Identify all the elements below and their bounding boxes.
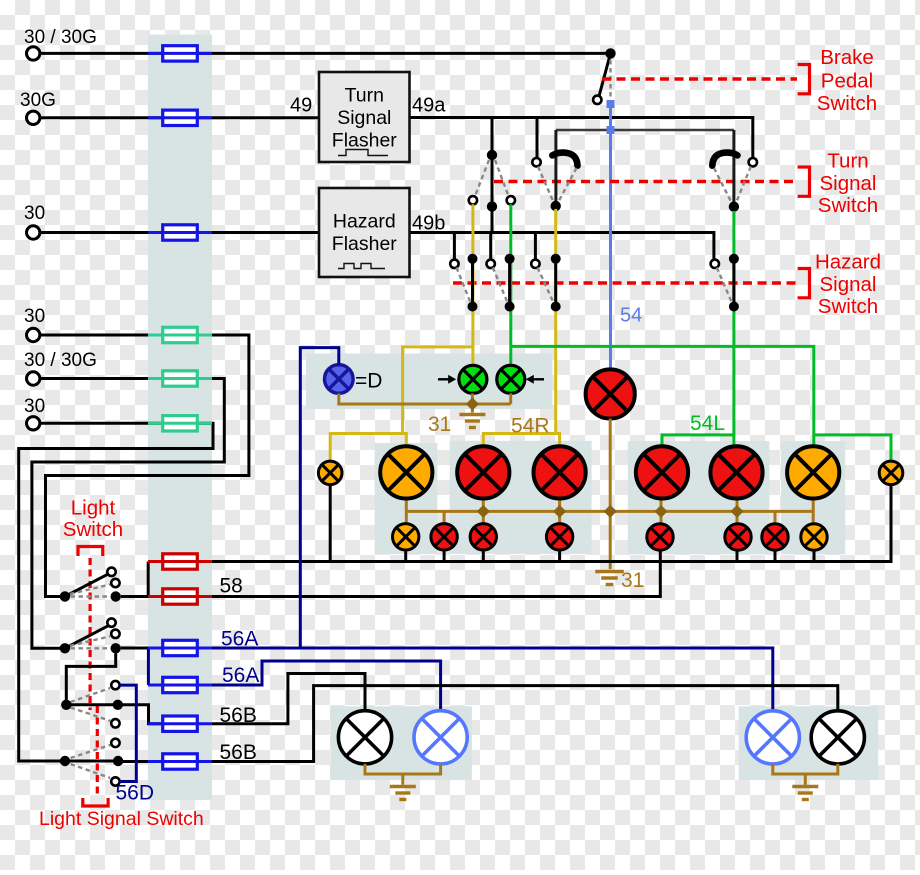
wire 56B low beam right bbox=[212, 686, 838, 762]
wire 56B low beam left bbox=[212, 674, 365, 724]
light signal switch bracket bottom bbox=[83, 798, 108, 806]
svg-text:Pedal: Pedal bbox=[821, 70, 873, 93]
light switch pole 2 dashes bbox=[70, 636, 110, 646]
riser 58 fuse upper bbox=[147, 562, 150, 597]
left low beam headlamp bbox=[338, 711, 391, 764]
turn switch linkage dashes left arc bbox=[538, 167, 553, 202]
indicator ground bus bbox=[339, 394, 511, 405]
tail lamp R1 bbox=[647, 524, 673, 550]
hazard switch supply stub 2 bbox=[489, 233, 492, 260]
terminal 30 (light switch) bbox=[27, 328, 40, 341]
fuse F8 red 58 bbox=[148, 589, 212, 604]
dimmer pole 4 nodes bbox=[60, 756, 70, 766]
svg-text:Flasher: Flasher bbox=[332, 130, 398, 152]
hazard switch jumper 3 bbox=[554, 259, 557, 307]
wire 30 to hazard flasher bbox=[40, 231, 319, 234]
wire 54 vertical bbox=[609, 104, 612, 370]
svg-text:56A: 56A bbox=[222, 664, 259, 687]
hazard switch contact 3 bbox=[531, 260, 539, 268]
right headlight cluster background bbox=[739, 706, 879, 780]
wire 30 feed to light switch pole 1 bbox=[40, 335, 249, 597]
front left indicator lamp (small orange) bbox=[318, 461, 342, 485]
brake pedal switch linkage bbox=[609, 60, 611, 99]
fuse F1 blue 30/30G bbox=[148, 46, 212, 61]
front right turn lamp (orange) bbox=[787, 446, 839, 498]
rear right turn lamp (red) bbox=[710, 446, 762, 498]
light switch pole 1 nodes bbox=[60, 591, 70, 601]
brake pedal switch callout dashes bbox=[602, 77, 797, 80]
hazard signal switch bracket bbox=[798, 269, 810, 298]
rear right brake lamp (red) bbox=[636, 446, 688, 498]
svg-text:Switch: Switch bbox=[818, 295, 878, 318]
hazard flasher box U2 bbox=[319, 188, 410, 277]
light switch pole 1 lever bbox=[65, 572, 112, 596]
turn switch common rail (54 feed) bbox=[556, 129, 734, 132]
turn switch yellow contact left bbox=[469, 196, 477, 204]
svg-text:Brake: Brake bbox=[820, 46, 874, 69]
wire pole2 to 56A fuses bbox=[121, 647, 163, 650]
hazard switch supply stub 3 bbox=[534, 233, 537, 260]
ground trunk center bbox=[609, 419, 612, 569]
svg-text:Signal: Signal bbox=[337, 107, 391, 129]
dimmer open contacts bbox=[111, 719, 119, 727]
turn switch left pivot node bbox=[487, 150, 497, 160]
hazard switch contact 1 bbox=[450, 260, 458, 268]
front right side marker bbox=[801, 524, 827, 550]
right turn indicator lamp bbox=[497, 365, 525, 393]
arrow right glyph bbox=[438, 375, 456, 384]
riser 56A fuses bbox=[147, 648, 150, 685]
turn switch right arc contact bbox=[712, 153, 737, 166]
light switch pole 1 dashes bbox=[70, 585, 110, 595]
hazard switch supply stub 1 bbox=[453, 233, 456, 260]
hazard switch jumper 1 bbox=[471, 259, 474, 307]
tail lamp common gold bus bbox=[406, 510, 813, 513]
gold bus junction nodes bbox=[477, 505, 490, 518]
turn switch green node right bbox=[729, 202, 739, 212]
ground 31 right headlamps bbox=[792, 787, 818, 800]
light switch pole 2 nodes bbox=[60, 643, 70, 653]
svg-text:Hazard: Hazard bbox=[333, 211, 396, 233]
hazard switch linkage dashes bbox=[457, 268, 471, 303]
turn switch linkage dashes right arc bbox=[737, 167, 751, 202]
light switch callout bracket top bbox=[78, 547, 103, 557]
fuse F2 blue 30G bbox=[148, 110, 212, 125]
turn signal flasher box U1 bbox=[319, 72, 410, 162]
svg-text:Switch: Switch bbox=[818, 194, 878, 217]
wire 54 node square lower bbox=[607, 126, 615, 134]
dimmer pole 3 nodes bbox=[61, 700, 71, 710]
turn switch linkage dashes left pair bbox=[475, 160, 489, 196]
indicator bus node bbox=[466, 397, 479, 410]
svg-text:=D: =D bbox=[355, 370, 382, 393]
fuse F10 blue 56A bbox=[148, 677, 212, 692]
front right indicator lamp (small orange) bbox=[879, 461, 903, 485]
svg-text:Signal: Signal bbox=[820, 273, 877, 296]
hazard switch jumper 4 bbox=[732, 259, 735, 307]
terminal 30/30G (light switch) bbox=[27, 372, 40, 385]
terminal 30 (hazard) bbox=[27, 226, 40, 239]
gold bus risers bbox=[405, 499, 408, 524]
svg-text:58: 58 bbox=[220, 575, 243, 598]
svg-text:54: 54 bbox=[620, 305, 642, 327]
wire 56D loop bbox=[120, 685, 137, 781]
svg-text:30G: 30G bbox=[20, 90, 56, 111]
turn switch left arc contact bbox=[552, 153, 577, 166]
wire 58 lower branch bbox=[197, 550, 660, 596]
tail lamp L2 bbox=[470, 524, 496, 550]
fuse F12 blue 56B bbox=[148, 754, 212, 769]
svg-text:Signal: Signal bbox=[820, 172, 877, 195]
fuse F9 blue 56A bbox=[148, 640, 212, 655]
left headlamp ground wires bbox=[365, 764, 441, 774]
wire 30/30G top bus bbox=[40, 52, 608, 55]
ground 31 left headlamps bbox=[390, 787, 416, 800]
yellow wire A branch bbox=[403, 347, 473, 434]
wire pole2 to dimmer bbox=[66, 653, 115, 700]
light signal switch linkage dashed vertical bbox=[96, 706, 99, 797]
turn switch drop from 49a left bbox=[491, 118, 494, 233]
hazard switch contact 4 bbox=[711, 260, 719, 268]
svg-text:56A: 56A bbox=[221, 628, 258, 651]
wire pole4 to 56B fuse 2 bbox=[120, 760, 163, 763]
green branch to right front bbox=[510, 346, 814, 435]
indicator lamp drops bbox=[471, 393, 474, 412]
ground 31 center bbox=[595, 572, 624, 585]
svg-text:Switch: Switch bbox=[817, 92, 877, 115]
svg-text:Switch: Switch bbox=[63, 518, 123, 541]
left rear cluster background bbox=[450, 441, 592, 554]
svg-text:Flasher: Flasher bbox=[332, 233, 398, 255]
dimmer pole 3 bar bbox=[65, 703, 120, 706]
hazard switch contact 2 bbox=[487, 260, 495, 268]
wire 58 upper tail bus bbox=[197, 485, 891, 562]
svg-text:49: 49 bbox=[290, 95, 312, 117]
green wire right turn bbox=[732, 211, 735, 435]
tail bus stubs bbox=[329, 486, 332, 562]
yellow rail rear left bbox=[483, 434, 559, 447]
fuse F11 blue 56B bbox=[148, 716, 212, 731]
turn signal switch callout dashes bbox=[494, 180, 797, 183]
wire 30G to turn signal flasher bbox=[40, 116, 319, 119]
svg-text:Hazard: Hazard bbox=[815, 251, 881, 274]
brake pedal switch bracket bbox=[798, 65, 810, 94]
tail lamp L1 bbox=[431, 524, 457, 550]
brake pedal switch contact bbox=[593, 96, 601, 104]
svg-text:31: 31 bbox=[428, 413, 451, 436]
svg-text:56B: 56B bbox=[220, 704, 257, 727]
wire 30 feed to light signal switch bbox=[19, 423, 213, 761]
turn switch right contact bbox=[749, 158, 757, 166]
yellow rail front left bbox=[330, 434, 406, 460]
wire 49b from hazard flasher bbox=[410, 233, 714, 260]
svg-text:49b: 49b bbox=[412, 213, 445, 235]
dimmer contact 56D lower bbox=[111, 777, 119, 785]
svg-text:Turn: Turn bbox=[345, 85, 384, 107]
high beam indicator lamp bbox=[325, 365, 354, 394]
green rail front right bbox=[814, 435, 891, 461]
turn switch drop to left contact bbox=[536, 118, 539, 159]
yellow wire A turn contact to left indicator bbox=[471, 204, 474, 365]
tail lamp R3 bbox=[762, 524, 788, 550]
svg-text:49a: 49a bbox=[412, 95, 446, 117]
turn switch green contact left bbox=[507, 196, 515, 204]
wire pole3 to 56B fuse 1 bbox=[120, 705, 163, 724]
dimmer pole 4 bar bbox=[65, 760, 120, 763]
hazard signal switch callout dashes bbox=[453, 281, 797, 284]
svg-text:54L: 54L bbox=[690, 412, 725, 435]
wire pole1 to 58 fuses bbox=[121, 595, 163, 598]
svg-text:Light: Light bbox=[71, 497, 116, 520]
high beam indicator feed bbox=[300, 348, 339, 648]
brake pedal switch node bbox=[605, 48, 615, 58]
fuse F6 green 30 bbox=[148, 416, 212, 431]
svg-text:30 / 30G: 30 / 30G bbox=[24, 350, 97, 371]
right low beam headlamp bbox=[811, 711, 864, 764]
green drop front right big bbox=[812, 435, 815, 446]
front left turn lamp (orange) bbox=[380, 446, 432, 498]
svg-text:30: 30 bbox=[24, 396, 45, 417]
wire 56A high beam left bbox=[212, 661, 441, 711]
dimmer contact 56D upper bbox=[111, 681, 119, 689]
left front corner cluster background bbox=[375, 443, 438, 554]
svg-text:56D: 56D bbox=[116, 782, 155, 805]
terminal 30 (light signal switch) bbox=[27, 417, 40, 430]
svg-text:Light Signal Switch: Light Signal Switch bbox=[39, 808, 204, 830]
left headlight cluster background bbox=[330, 706, 472, 780]
svg-text:Turn: Turn bbox=[827, 150, 868, 173]
svg-text:54R: 54R bbox=[511, 415, 550, 438]
right rear cluster background bbox=[628, 441, 770, 554]
brake lamp center bbox=[586, 369, 635, 418]
dimmer pole 3 dashes bbox=[71, 688, 111, 702]
light switch pole 2 contacts bbox=[107, 618, 115, 626]
ground 31 indicator bbox=[459, 415, 485, 428]
right front corner cluster background bbox=[781, 441, 845, 554]
wire 54 node square upper bbox=[607, 100, 615, 108]
light switch linkage dashed vertical bbox=[88, 558, 91, 710]
turn switch yellow node mid bbox=[551, 201, 561, 211]
dimmer pole 4 dashes bbox=[71, 745, 111, 758]
fuse F4 green 30 bbox=[148, 327, 212, 342]
fuse F3 blue 30 hazard bbox=[148, 225, 212, 240]
hazard switch jumper 2 bbox=[508, 259, 511, 307]
terminal 30G bbox=[27, 111, 40, 124]
turn switch left contact bbox=[532, 158, 540, 166]
wire 56A high beam right bbox=[212, 648, 773, 711]
rear left turn lamp (red) bbox=[457, 446, 509, 498]
light switch pole 1 contacts bbox=[107, 568, 115, 576]
svg-text:30: 30 bbox=[24, 306, 45, 327]
left high beam headlamp bbox=[414, 711, 467, 764]
turn switch yellow node left bbox=[487, 201, 497, 211]
wire 49a from flasher bbox=[410, 118, 753, 159]
right headlamp ground wires bbox=[773, 764, 838, 774]
brake pedal switch lever bbox=[599, 53, 610, 95]
fuse box band bbox=[148, 35, 212, 800]
tail lamp L3 bbox=[546, 524, 572, 550]
fuse F5 green 30/30G bbox=[148, 371, 212, 386]
indicator cluster background bbox=[306, 354, 553, 410]
terminal 30/30G bbox=[27, 47, 40, 60]
turn switch right moving contact stem bbox=[732, 130, 735, 202]
svg-text:30 / 30G: 30 / 30G bbox=[24, 27, 97, 48]
left turn indicator lamp bbox=[459, 365, 487, 393]
right high beam headlamp bbox=[746, 711, 799, 764]
tail lamp R2 bbox=[725, 524, 751, 550]
svg-text:31: 31 bbox=[621, 569, 644, 592]
svg-text:30: 30 bbox=[24, 203, 45, 224]
turn switch left moving contact stem bbox=[554, 130, 557, 202]
arrow left glyph bbox=[526, 375, 544, 384]
fuse F7 red 58 bbox=[148, 554, 212, 569]
rear left brake lamp (red) bbox=[534, 446, 586, 498]
wire 30/30G feed to light switch pole 2 bbox=[32, 379, 224, 649]
light switch pole 2 lever bbox=[65, 624, 112, 648]
turn signal switch bracket bbox=[798, 167, 810, 196]
green rail rear right bbox=[662, 435, 734, 446]
yellow wire B mid bbox=[554, 209, 557, 434]
front left side marker bbox=[393, 524, 419, 550]
svg-text:56B: 56B bbox=[220, 741, 257, 764]
green wire turn contact to right indicator bbox=[509, 204, 512, 365]
